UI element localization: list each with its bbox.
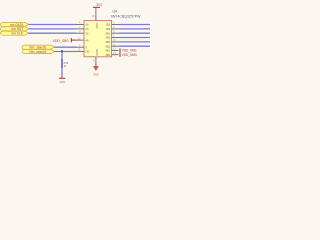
pin 2A [77, 25, 89, 31]
power port VDD_SB0 [53, 38, 77, 43]
junction on select1 [61, 50, 63, 52]
svg-text:OE: OE [85, 50, 89, 54]
svg-text:Nm_select1: Nm_select1 [30, 50, 47, 54]
pin 4B2 [105, 51, 118, 57]
svg-text:VCC: VCC [95, 23, 99, 29]
wire pulldown vertical [61, 52, 63, 76]
port Nm_select1 [22, 49, 54, 53]
port Nm_CLK [1, 31, 29, 35]
ground GND (below IC) [93, 66, 99, 77]
port Nm_select0 [22, 45, 54, 49]
pin 3A [77, 29, 89, 35]
svg-text:1B1: 1B1 [105, 23, 110, 27]
wire 2B1 [120, 32, 151, 34]
svg-text:VDD_NM0: VDD_NM0 [122, 53, 137, 57]
svg-text:1A: 1A [85, 23, 89, 27]
svg-text:nm CLK: nm CLK [12, 32, 24, 36]
svg-text:3A: 3A [85, 31, 89, 35]
wire 1B2 [120, 28, 151, 30]
power port GND (pulldown) [59, 75, 65, 85]
pin 8 GND bottom [95, 57, 97, 63]
pin S [77, 43, 88, 49]
svg-text:VDD_SB0: VDD_SB0 [53, 39, 69, 43]
pin 2B1 [105, 29, 119, 35]
svg-text:GND: GND [93, 73, 99, 77]
wire 3B1 [120, 41, 151, 43]
svg-text:SN74CBQ3257PW: SN74CBQ3257PW [111, 14, 142, 18]
pin 1B2 [105, 25, 119, 31]
wire RST [29, 28, 77, 30]
pin 1A [77, 21, 89, 27]
wire select1 [54, 51, 76, 53]
power port VDD_NM1 [120, 48, 137, 52]
pin 16 VCC top [95, 8, 97, 21]
svg-text:3V3: 3V3 [96, 3, 102, 7]
wire 2B2 [120, 37, 151, 39]
svg-text:4B2: 4B2 [105, 53, 110, 57]
wire DATA [29, 24, 77, 26]
power port VDD_NM0 [120, 53, 137, 57]
pin OE [77, 48, 90, 54]
svg-text:U4: U4 [113, 9, 118, 13]
wire 1B1 [120, 24, 151, 26]
svg-text:16: 16 [91, 14, 95, 18]
wire CLK [29, 32, 77, 34]
power port 3V3 (top) [93, 3, 102, 7]
pin 4B1 [105, 47, 118, 53]
pin 2B2 [105, 34, 119, 40]
wire select0 [54, 46, 76, 48]
port Nm_DATA [1, 23, 29, 27]
svg-text:GND: GND [95, 49, 99, 55]
wire 3B2 [120, 45, 151, 47]
port Nm_RST [1, 27, 29, 31]
svg-text:GND: GND [59, 80, 65, 84]
svg-text:4A: 4A [85, 38, 89, 42]
pin 1B1 [105, 21, 119, 27]
pin 3B1 [105, 38, 119, 44]
svg-text:2B2: 2B2 [105, 36, 110, 40]
op IC U4 body [84, 21, 112, 57]
pin 4A [77, 36, 89, 42]
resistor R15 [62, 59, 69, 68]
pin 3B2 [105, 42, 119, 48]
